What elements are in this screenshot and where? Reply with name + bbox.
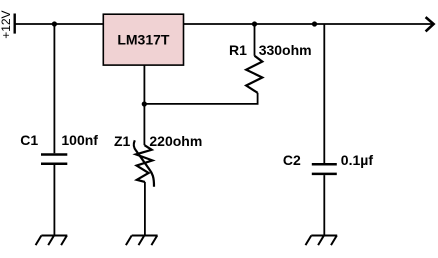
- power terminal +12V: [13, 14, 15, 34]
- node junction dot (R1 branch): [252, 21, 257, 26]
- svg-text:220ohm: 220ohm: [149, 133, 202, 149]
- svg-text:100nf: 100nf: [61, 132, 98, 148]
- wire top rail left: [15, 23, 104, 25]
- varistor Z1 zigzag: [136, 145, 153, 182]
- ground (C1 branch): [36, 236, 68, 246]
- node junction dot (adjust node): [142, 101, 147, 106]
- svg-text:0.1µf: 0.1µf: [341, 152, 374, 168]
- wire C1 branch lower: [53, 165, 55, 236]
- varistor Z1 crossing stroke: [134, 140, 154, 187]
- node junction dot (C2 branch): [312, 21, 317, 26]
- ground (C2 branch): [306, 236, 338, 246]
- wire LM317T adjust pin: [143, 65, 145, 104]
- capacitor C2: [312, 164, 337, 174]
- wire top rail right: [184, 23, 433, 25]
- svg-text:+12V: +12V: [0, 10, 13, 38]
- regulator U1 LM317T body: [103, 14, 183, 65]
- wire R1 top stub: [254, 24, 256, 56]
- wire Z1 top stub: [143, 104, 145, 145]
- node junction dot (C1 branch): [52, 21, 57, 26]
- wire C2 branch lower: [323, 175, 325, 235]
- svg-text:330ohm: 330ohm: [259, 42, 312, 58]
- capacitor C1: [41, 155, 67, 164]
- svg-text:LM317T: LM317T: [117, 31, 170, 47]
- svg-text:R1: R1: [229, 42, 247, 58]
- resistor R1 zigzag: [246, 56, 262, 93]
- svg-text:Z1: Z1: [114, 133, 131, 149]
- svg-text:C1: C1: [20, 132, 38, 148]
- wire feedback from R1 bottom to adjust node: [144, 93, 257, 104]
- svg-text:C2: C2: [283, 152, 301, 168]
- ground (Z1 branch): [126, 236, 158, 246]
- wire Z1 bottom stub: [144, 182, 146, 236]
- output arrow: [426, 17, 434, 31]
- wire C1 branch upper: [53, 24, 55, 153]
- wire C2 branch upper: [323, 24, 325, 163]
